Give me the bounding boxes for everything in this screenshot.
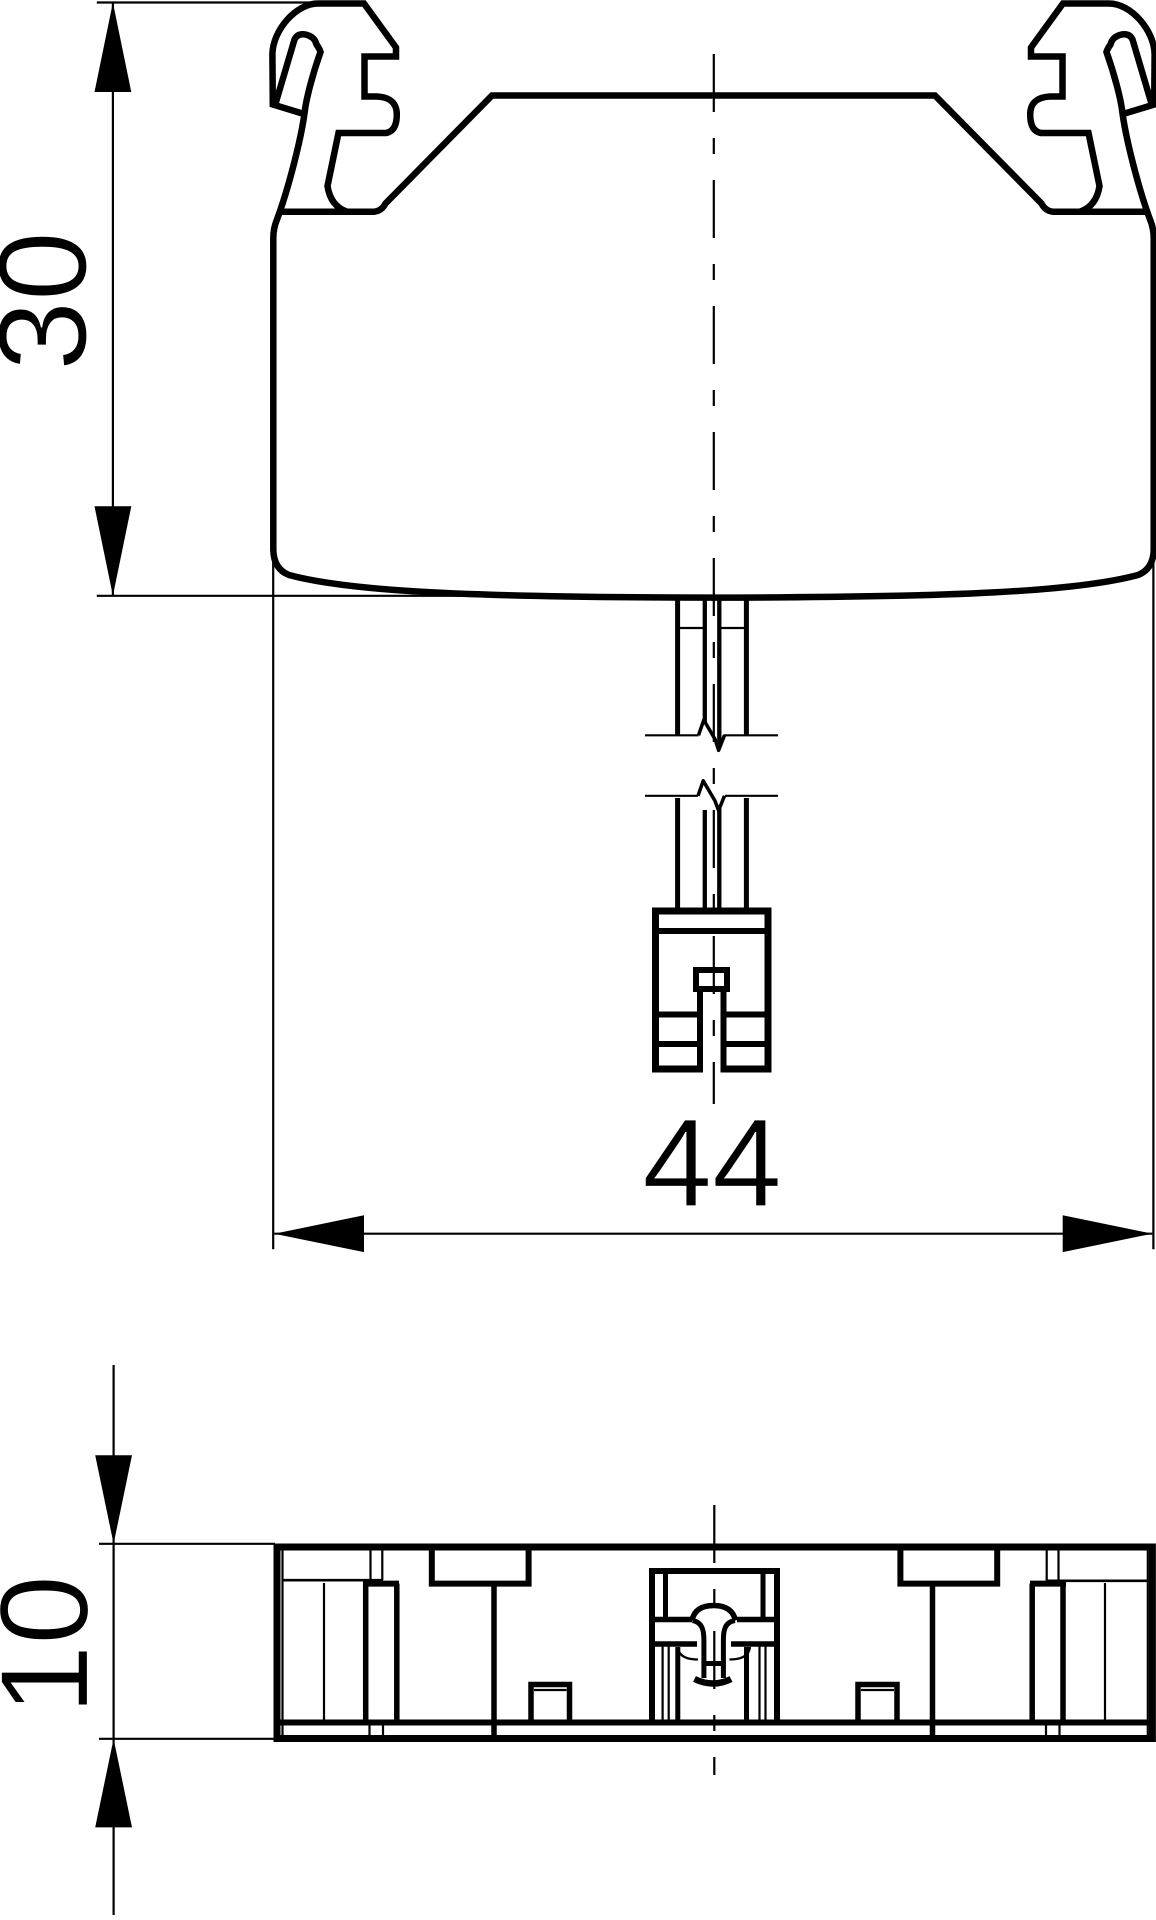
extension line bottom [97, 595, 460, 597]
body shoulder: clip seat, slant and top plateau to center [278, 96, 714, 212]
stem upper section outer walls [678, 596, 747, 735]
arrowhead left [274, 1215, 364, 1252]
svg-text:10: 10 [0, 1575, 114, 1715]
column walls [366, 1584, 1063, 1723]
dimension line 10 [112, 1365, 114, 1915]
rivet point arrow [695, 1679, 732, 1684]
wall inner lines [283, 1550, 1148, 1735]
centerline top view (dash-dot) [713, 54, 715, 1104]
stem lower section outer walls [678, 798, 747, 911]
chamber mid lines [324, 1583, 1105, 1723]
svg-text:30: 30 [0, 231, 113, 371]
break line 1 [645, 734, 778, 736]
centerline bottom view [713, 1505, 715, 1775]
foot top band line [656, 928, 769, 934]
bottom view outline [277, 1544, 1152, 1743]
extension line top [97, 1, 330, 3]
rivet stem [693, 1621, 736, 1679]
rivet stem tick [704, 1661, 724, 1666]
body outline left: arm diagonal, left edge, bottom arc to center [273, 52, 713, 598]
arrowhead down [95, 506, 132, 596]
extension line right [1152, 558, 1154, 1249]
right half (mirror of left) [714, 4, 1155, 598]
floor line [280, 1720, 1149, 1726]
stem expansion slot walls (upper) [705, 598, 720, 745]
arrowhead down to part top [95, 1455, 132, 1544]
stem step line [678, 627, 747, 629]
left half of body + clip, mirrored for right side [272, 4, 713, 598]
top strip inner lines [282, 1579, 1147, 1582]
extension line bottom [99, 1738, 275, 1740]
snap band lines [652, 1620, 777, 1645]
left clip outer contour with hook [272, 4, 396, 212]
column caps [363, 1581, 1066, 1587]
floor bump right [858, 1685, 897, 1723]
arrowhead right [1063, 1215, 1153, 1252]
left clip latch finger cap [276, 34, 321, 103]
block drop walls [494, 1584, 933, 1736]
foot lower band lines [656, 1015, 769, 1045]
foot center channel walls [700, 989, 724, 1073]
floor bump left [531, 1685, 570, 1723]
rivet dome [692, 1606, 736, 1621]
svg-text:44: 44 [642, 1092, 782, 1233]
arrowhead up to part bottom [95, 1739, 132, 1828]
strip double verticals [370, 1551, 1060, 1737]
extension line left [272, 558, 274, 1249]
spring arcs [678, 1647, 751, 1660]
dimension line 30 [112, 3, 114, 596]
break line 2 [645, 795, 778, 797]
center snap feature box [652, 1571, 777, 1723]
foot latch head [696, 970, 727, 989]
stem cross-section walls below band [678, 1647, 747, 1723]
notch block right [900, 1550, 997, 1584]
dimension line 44 [274, 1233, 1152, 1235]
arrowhead up [95, 3, 132, 93]
foot connector outline [656, 911, 769, 1069]
snap feature inner walls upper [666, 1571, 764, 1620]
stem expansion slot walls (lower) [705, 805, 720, 911]
notch block left [432, 1550, 529, 1584]
extension line top [99, 1543, 275, 1545]
thin tube lines below band [663, 1644, 766, 1723]
